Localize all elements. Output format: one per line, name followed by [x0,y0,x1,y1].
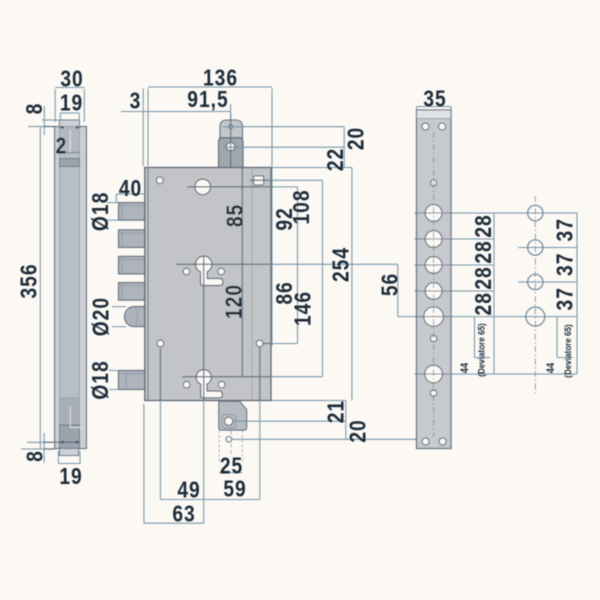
faceplate dark pocket bottom [60,425,80,449]
body bottom ext line [271,400,346,402]
svg-text:59: 59 [223,476,246,502]
deadbolt 1 [119,203,145,221]
svg-text:(Deviatore 65): (Deviatore 65) [563,324,574,378]
dim 35 line [417,107,452,112]
chain 37 dim line [576,213,578,374]
dim 108/146 vertical [322,180,324,376]
dim 25 line [219,472,242,474]
dim 44 line left [475,317,491,358]
LEFT_GROUP [21,88,86,464]
top block circle [227,143,235,151]
dim 30 line [55,88,84,123]
arrowheads 19 top [59,126,81,129]
plate hole 1 [425,205,442,222]
far hole 1 [528,205,543,220]
svg-text:356: 356 [16,263,42,298]
dim 8 bottom lines [21,433,44,463]
dim 40 line [116,194,145,202]
svg-text:44: 44 [460,363,472,374]
keyhole upper (double-bit key hole) [196,256,223,285]
plate center dash-dot line [433,132,435,437]
deviator bracket below body [219,401,247,430]
dim lines O18 top [107,203,119,221]
dim 19 bottom line [58,451,80,464]
follower hub [195,179,211,195]
faceplate top tab [60,120,80,127]
arrowheads 19 bottom [59,441,81,444]
strip screw circle [226,437,232,443]
svg-text:8: 8 [21,103,47,115]
plate hole O20 [424,307,444,327]
pin center line [230,113,232,168]
faceplate bottom L slit [70,406,83,428]
svg-text:254: 254 [328,247,354,282]
plate screw bottom right [439,438,446,445]
dim 8 top lines [28,106,60,135]
cylinder center vertical long [203,256,205,401]
bracket circle line [233,420,346,422]
chain 28 dim line [493,213,495,374]
hidden strip dashed edges [219,431,242,463]
dim 91,5 line [121,111,231,113]
dim 19 top line [60,113,79,120]
BODY_GROUP [145,113,271,462]
far hole 3 [528,274,543,289]
svg-text:30: 30 [60,66,83,92]
faceplate top recess band [60,127,80,153]
svg-text:63: 63 [172,501,195,527]
screw hole TR square [254,176,264,185]
faceplate dark pocket top [60,159,80,167]
ext body left down [143,404,145,523]
svg-text:108: 108 [288,189,314,224]
dim lines O20 [112,307,126,327]
dim 136 line [148,86,272,88]
body top ext line [271,167,352,169]
svg-text:19: 19 [60,90,83,116]
keyhole lower (double-bit key hole) [196,370,222,398]
dim 56 vertical [397,264,399,316]
svg-text:146: 146 [290,291,316,326]
svg-text:19: 19 [59,463,82,489]
svg-text:37: 37 [552,253,578,276]
plate deviator hole [425,365,443,383]
faceplate bottom recess band [60,398,80,425]
faceplate bottom tab [60,449,79,456]
svg-text:44: 44 [546,363,558,374]
row line 282 detail [518,281,577,283]
top pin [220,120,243,138]
svg-text:120: 120 [221,284,247,319]
plate hole 2 [425,231,442,248]
DIM_GROUP [121,87,417,523]
row line deviator 374 long [417,373,578,375]
plate screw top right [439,123,446,130]
far detail center dash line [534,196,536,396]
dim 356 line [39,127,41,450]
svg-text:37: 37 [552,287,578,310]
BR hole line [264,343,272,345]
svg-text:28: 28 [470,240,496,263]
plate screw bottom left [422,438,429,445]
svg-text:Ø18: Ø18 [87,192,113,231]
screw hole BR [256,340,263,347]
plate row line 239 [417,238,495,240]
deadbolt 3 [119,256,145,274]
svg-text:35: 35 [423,86,446,112]
faceplate step line under 2 [60,152,80,154]
screw hole TL [156,177,163,184]
dim 49/59 line [160,499,259,501]
svg-text:49: 49 [177,477,200,503]
svg-text:91,5: 91,5 [187,86,228,112]
keyhole screw right [218,268,225,275]
strip center dashed [230,431,232,458]
dim 92/86 vertical [297,187,299,344]
svg-text:28: 28 [470,214,496,237]
lock body case [145,168,271,401]
top latch block [219,138,244,168]
svg-text:Ø18: Ø18 [87,360,113,399]
svg-text:28: 28 [470,266,496,289]
round bolt O20 [125,307,145,327]
ext BL hole down [159,348,161,401]
plate row line 213 long [417,212,578,214]
svg-text:22: 22 [322,148,348,171]
plate small hole low [430,390,436,396]
svg-text:40: 40 [119,175,142,201]
plate hole 3 [425,257,442,274]
dim 20/22 vertical [343,127,345,168]
plate row line 265 [417,264,495,266]
PLATE_GROUP [398,107,577,449]
plate small hole mid [430,335,436,341]
row line O20 316 long [398,316,577,318]
keyhole screw left [183,268,190,275]
dim 63 line [144,522,204,524]
cylinder line [176,263,271,265]
svg-text:3: 3 [130,88,142,114]
strip circle line [232,438,417,440]
svg-text:Ø20: Ø20 [88,297,114,336]
plate small hole upper [431,180,437,186]
long ext line right of body [271,89,273,347]
dim 85/120 vertical [241,168,243,377]
dim 44 line right [557,317,573,358]
faceplate top slit [69,130,71,153]
line through pin circle [223,126,345,128]
far hole 2 [528,240,543,255]
deadbolt 4 [119,283,145,301]
deadbolt 2 [119,230,145,248]
dim 21/20 vertical [345,401,347,440]
faceplate outer plate [55,127,87,449]
svg-text:20: 20 [344,419,370,442]
counterplate [417,110,452,449]
bracket recess [222,415,236,428]
ext line 136 left [147,89,149,167]
svg-text:(Deviatore 65): (Deviatore 65) [476,323,487,377]
ext line 91,5 right [230,104,232,119]
ext BR hole down [259,348,261,401]
plate hole cross lines [415,213,453,374]
screw hole BL [157,340,164,347]
deviator bolt O18 bottom [119,371,145,390]
dim lines O18 bottom [109,371,119,390]
TEXT_GROUP [16,65,578,527]
svg-text:85: 85 [222,204,248,227]
far hole O20 [526,307,545,326]
plate row line 291 [417,290,495,292]
plate hole 4 [425,283,442,300]
svg-text:28: 28 [470,292,496,315]
dim 254 vertical [351,168,353,401]
svg-text:37: 37 [552,218,578,241]
svg-text:20: 20 [343,127,369,150]
row line 247 detail [518,247,577,249]
bracket screw circle [225,417,233,425]
BOLT_GROUP [107,194,145,390]
follower line [187,186,271,188]
svg-text:2: 2 [56,133,68,159]
svg-text:56: 56 [377,273,403,296]
ext line body left edge up [142,89,144,167]
lower keyhole line [182,376,271,378]
keyhole lower screw right [218,381,225,388]
body cover line [251,168,253,401]
TR hole line [250,179,271,181]
top pin circle [229,125,233,129]
keyhole lower screw left [183,381,190,388]
svg-text:8: 8 [22,450,48,462]
line through block circle [223,146,345,148]
body front plate line (3mm) [147,168,149,401]
counterplate top band [417,111,451,119]
faceplate inner column [60,127,80,449]
plate screw top left [422,123,429,130]
